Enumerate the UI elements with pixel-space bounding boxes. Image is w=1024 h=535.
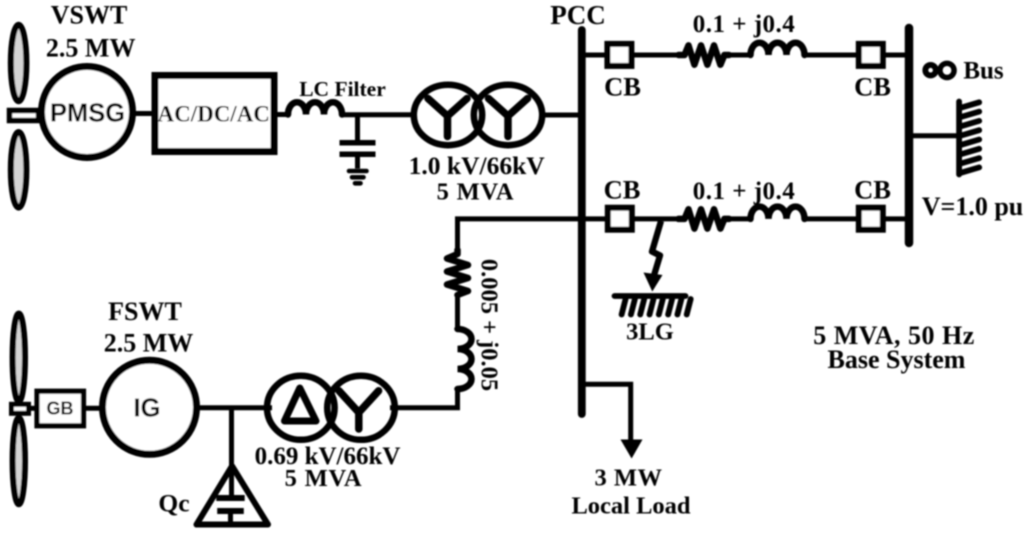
wire branch to transformer T2 [390, 405, 460, 410]
wire gearbox to IG [84, 406, 101, 411]
svg-text:GB: GB [47, 399, 74, 419]
capacitor Qc plate 2 [217, 508, 244, 514]
svg-text:CB: CB [604, 72, 641, 102]
svg-text:Qc: Qc [158, 489, 189, 518]
capacitor bank Qc triangle [197, 466, 269, 525]
load arrow [621, 440, 643, 459]
bus infinite (right) [905, 28, 914, 243]
inductor (branch j0.05) [458, 329, 472, 389]
svg-text:1.0 kV/66kV: 1.0 kV/66kV [409, 151, 546, 180]
svg-text:2.5 MW: 2.5 MW [46, 34, 136, 63]
resistor (line 1) [679, 45, 730, 64]
infinity symbol [925, 65, 936, 76]
wind turbine blade (VSWT lower) [11, 132, 27, 208]
svg-text:2.5 MW: 2.5 MW [104, 328, 194, 357]
wire branch between R and L [455, 294, 460, 330]
transformer T1 secondary Y symbol [489, 99, 528, 137]
transformer T1 primary Y symbol [428, 99, 467, 137]
svg-text:IG: IG [134, 394, 161, 422]
svg-text:CB: CB [854, 72, 891, 102]
capacitor C (LC filter) plate 2 [340, 152, 376, 158]
wire converter to filter inductor [274, 112, 289, 117]
capacitor Qc plate 1 [216, 495, 244, 501]
node filter capacitor tap [355, 115, 360, 141]
wire capacitor to ground [355, 155, 360, 169]
wire CB to infinite bus (line 2) [884, 216, 908, 221]
circuit breaker CB (line 1 right) [859, 44, 883, 66]
resistor (branch 0.005) [447, 250, 468, 295]
inductor (line 2) [751, 207, 805, 219]
svg-text:LC Filter: LC Filter [299, 77, 386, 101]
wire CB to resistor (line 2) [634, 216, 682, 221]
transformer T2 primary winding (delta) [267, 376, 335, 440]
turbine hub FSWT [12, 404, 29, 413]
capacitor C (LC filter) plate 1 [340, 140, 376, 146]
transformer T2 delta symbol [285, 388, 317, 421]
svg-text:FSWT: FSWT [108, 297, 182, 326]
wire filter to transformer [342, 112, 416, 117]
ground (LC filter) [349, 171, 367, 183]
wire resistor to inductor (line 2) [728, 216, 751, 221]
transformer T1 secondary winding [474, 85, 542, 145]
svg-text:CB: CB [854, 175, 891, 205]
svg-text:0.1 + j0.4: 0.1 + j0.4 [693, 178, 796, 205]
svg-text:CB: CB [604, 175, 641, 205]
svg-text:VSWT: VSWT [51, 1, 128, 30]
wire PCC to CB (line 2) [582, 216, 606, 221]
wind turbine blade (VSWT upper) [11, 25, 27, 101]
wire inductor to CB (line 2 right) [804, 216, 858, 221]
turbine hub VSWT [10, 111, 39, 121]
svg-text:PCC: PCC [550, 0, 606, 30]
wire transformer T1 to PCC bus [539, 113, 582, 118]
wire junction to Qc [229, 408, 234, 498]
wire IG to transformer T2 [196, 405, 272, 410]
wire resistor to inductor (line 1) [728, 53, 751, 58]
transformer T2 secondary winding (Y) [327, 376, 395, 440]
svg-text:PMSG: PMSG [50, 99, 125, 127]
wire CB to infinite bus (line 1) [884, 53, 908, 58]
transformer T1 primary winding [414, 85, 482, 145]
wind turbine blade (FSWT lower) [13, 418, 25, 505]
svg-text:Bus: Bus [963, 58, 1004, 85]
wire branch vertical upper [455, 217, 460, 254]
resistor (line 2) [679, 209, 730, 228]
svg-text:3 MW: 3 MW [595, 465, 663, 492]
svg-text:AC/DC/AC: AC/DC/AC [157, 102, 269, 127]
wire hub to gearbox [28, 406, 38, 411]
inductor (line 1) [751, 43, 805, 55]
inductor L (LC filter) [288, 102, 342, 114]
wire CB to resistor (line 1) [632, 53, 682, 58]
wire PCC to CB (line 1) [582, 53, 606, 58]
wire Qc plate to base [228, 511, 233, 524]
circuit breaker CB (line 1 left) [607, 44, 631, 66]
wire inductor to CB (line 1 right) [804, 53, 858, 58]
wire PCC to series branch (horizontal) [455, 216, 582, 221]
ground hatch (infinite source) [959, 102, 979, 175]
wire PCC to local load [584, 384, 631, 443]
fault bolt 3LG [652, 221, 661, 277]
circuit breaker CB (line 2 right) [859, 208, 883, 230]
wire PMSG to converter [133, 111, 153, 116]
svg-text:5 MVA: 5 MVA [437, 179, 515, 206]
circuit breaker CB (line 2 left) [608, 208, 632, 230]
wire bus to source ground [912, 133, 958, 138]
wind turbine blade (FSWT upper) [13, 314, 25, 402]
generator IG [103, 360, 197, 454]
svg-text:0.005 + j0.05: 0.005 + j0.05 [476, 259, 503, 391]
wire branch vertical lower [455, 388, 460, 410]
converter AC/DC/AC [155, 76, 274, 152]
bus PCC [578, 30, 586, 414]
fault ground hatch [615, 296, 691, 315]
svg-text:Local Load: Local Load [571, 493, 690, 520]
svg-text:3LG: 3LG [626, 319, 674, 346]
transformer T2 Y symbol [339, 391, 379, 429]
svg-text:5 MVA: 5 MVA [285, 465, 363, 492]
generator PMSG [42, 67, 133, 158]
svg-text:Base System: Base System [828, 345, 966, 374]
svg-text:0.1 + j0.4: 0.1 + j0.4 [693, 11, 796, 38]
svg-text:V=1.0 pu: V=1.0 pu [922, 192, 1024, 221]
gearbox GB [37, 391, 84, 426]
